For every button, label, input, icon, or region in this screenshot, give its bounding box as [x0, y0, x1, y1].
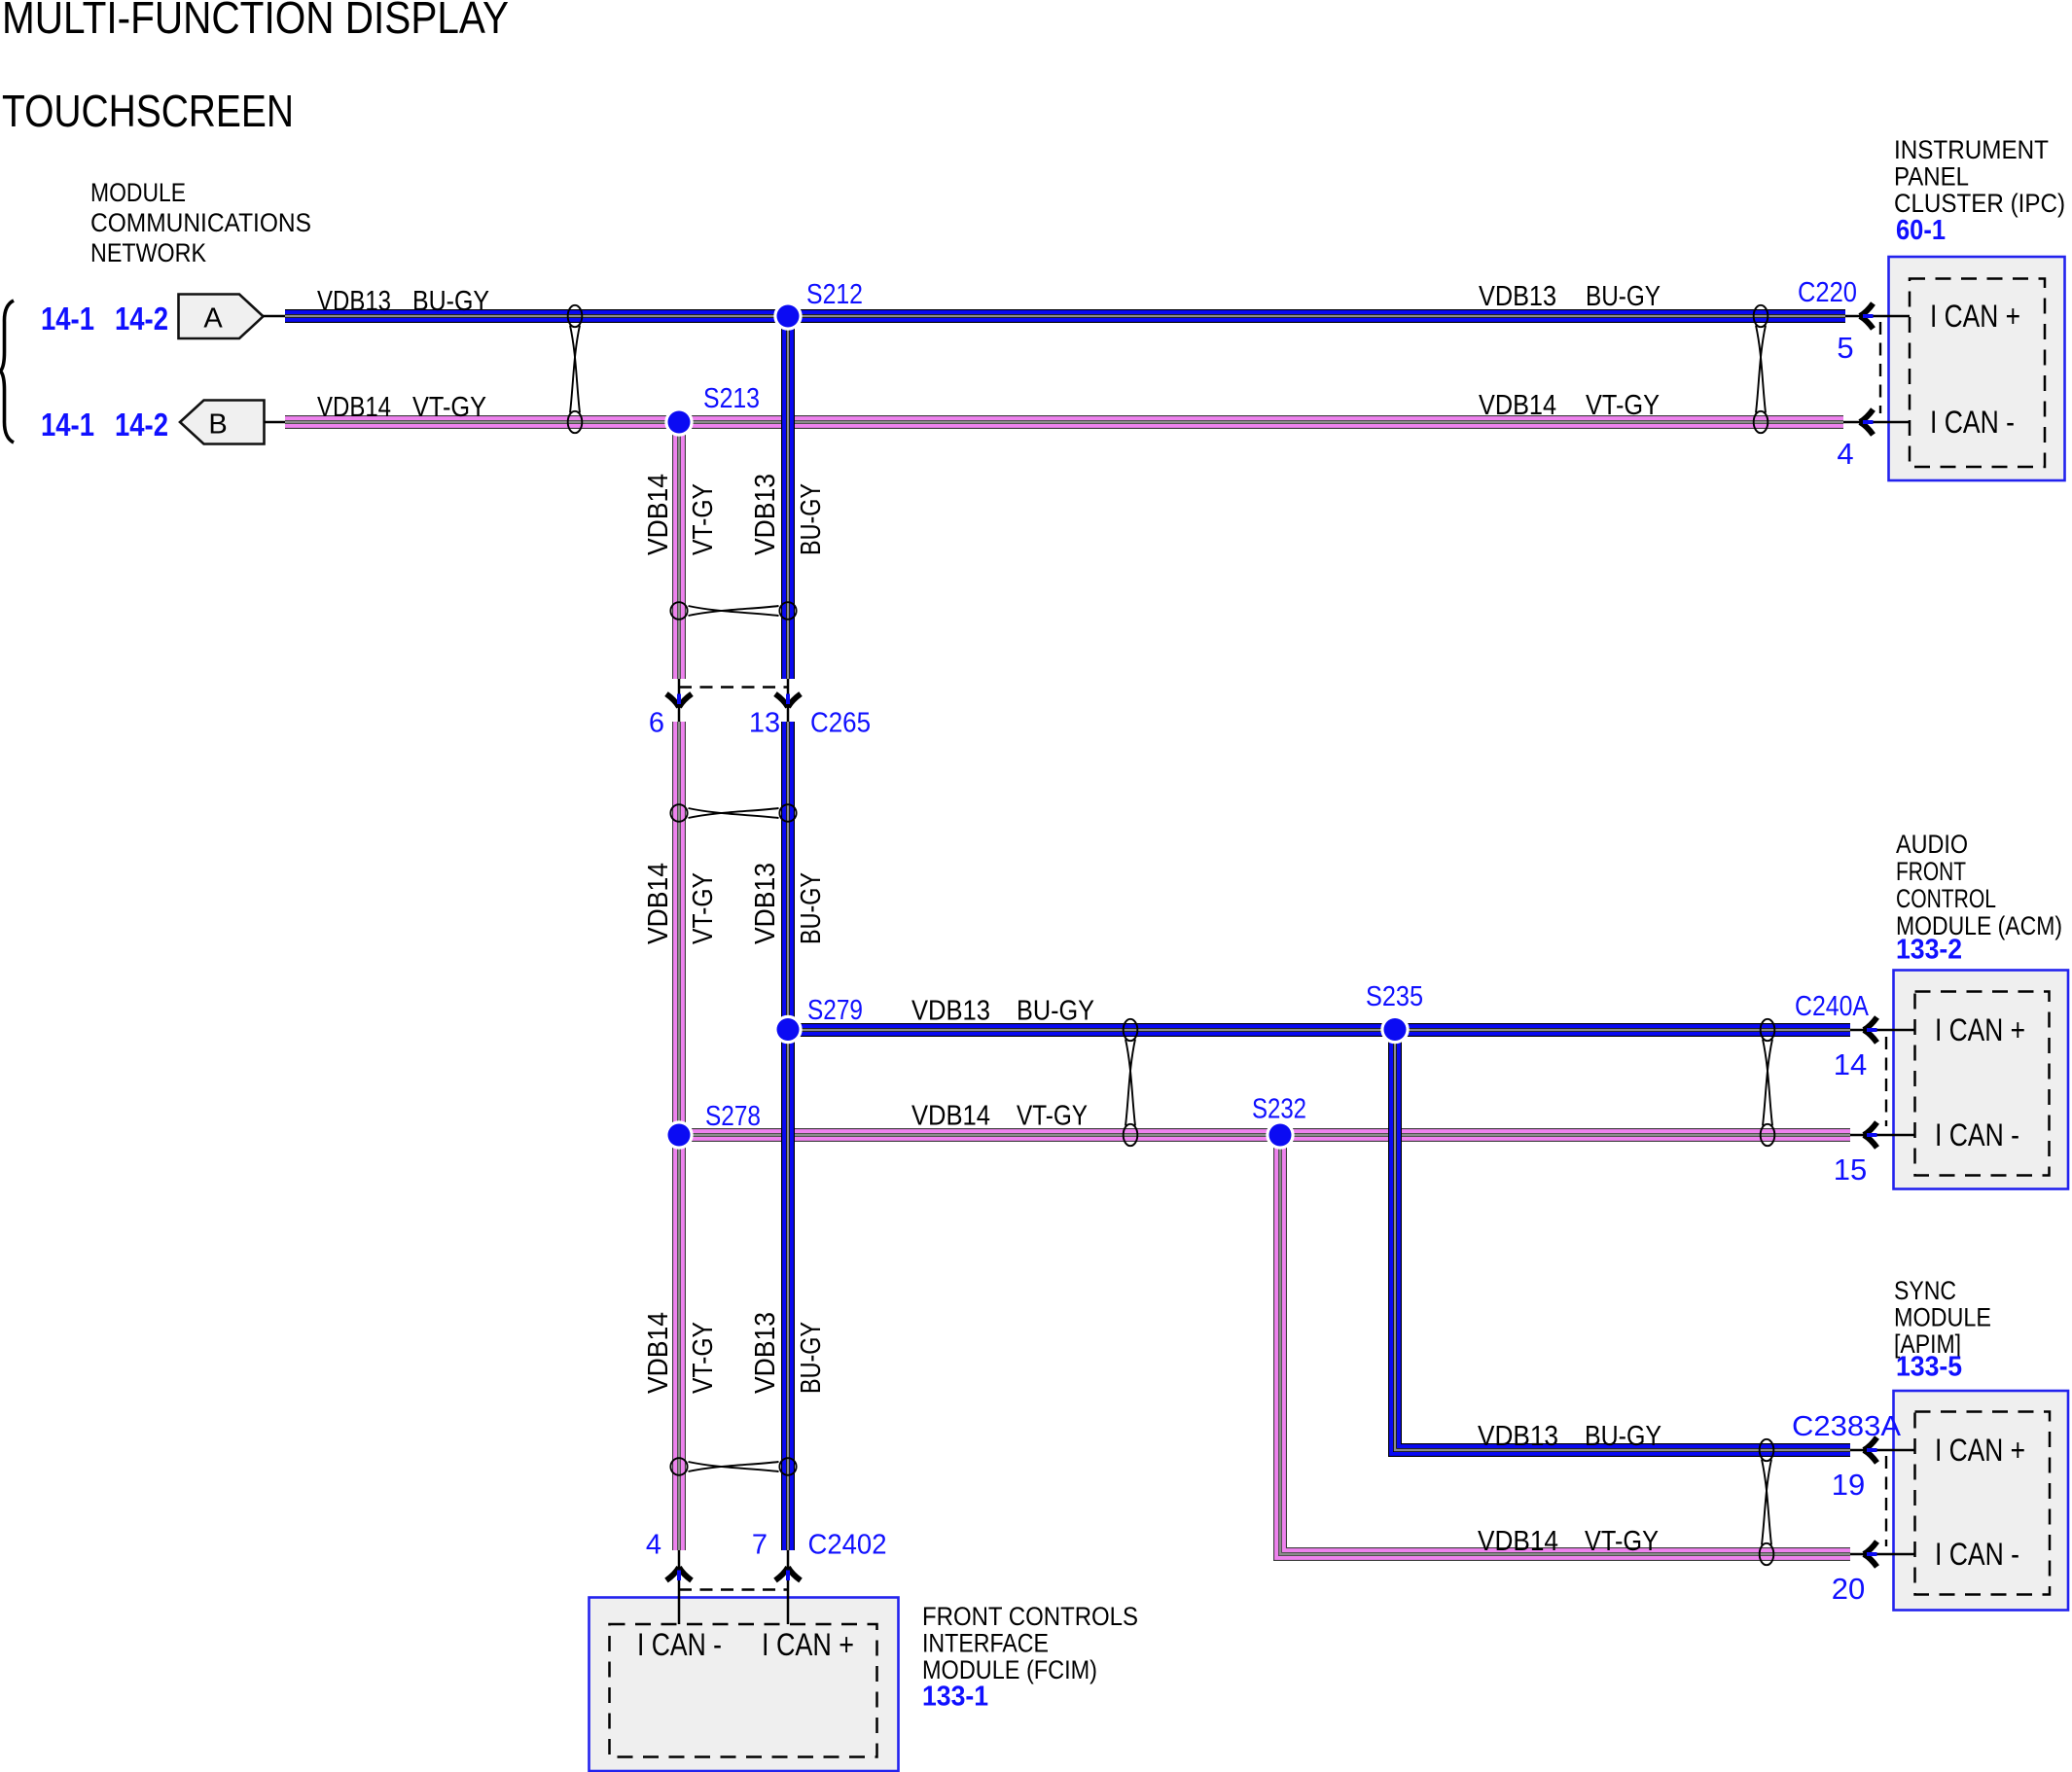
svg-text:VDB13: VDB13: [750, 474, 781, 555]
svg-text:S213: S213: [703, 383, 760, 414]
svg-text:19: 19: [1832, 1468, 1865, 1502]
svg-text:VDB14: VDB14: [1478, 1526, 1558, 1557]
connector tag B: [180, 401, 265, 444]
svg-text:VT-GY: VT-GY: [412, 392, 486, 423]
svg-text:C220: C220: [1798, 277, 1857, 308]
svg-text:VDB13: VDB13: [1478, 1421, 1558, 1452]
svg-text:S212: S212: [806, 279, 863, 310]
splice S279: [773, 1015, 802, 1044]
svg-text:CLUSTER (IPC): CLUSTER (IPC): [1894, 189, 2065, 218]
twisted pair symbol (APIM pair, at C2383A): [1760, 1439, 1774, 1565]
svg-text:S235: S235: [1366, 981, 1423, 1012]
svg-text:20: 20: [1832, 1572, 1865, 1606]
svg-text:BU-GY: BU-GY: [1586, 281, 1661, 312]
svg-text:VT-GY: VT-GY: [688, 872, 719, 944]
splice S278: [664, 1120, 693, 1149]
svg-text:MULTI-FUNCTION DISPLAY: MULTI-FUNCTION DISPLAY: [2, 0, 509, 43]
svg-text:13: 13: [749, 708, 780, 739]
svg-text:VT-GY: VT-GY: [1586, 390, 1660, 421]
FCIM pin 7 entry: [787, 1550, 790, 1624]
wire VDB14 VT-GY branch S232 to APIM pin 20: [1280, 1135, 1850, 1554]
svg-text:VDB14: VDB14: [643, 474, 674, 555]
splice S212: [773, 301, 802, 330]
wire VDB14 VT-GY to ACM pin 15: [679, 1128, 1850, 1142]
svg-text:15: 15: [1834, 1152, 1867, 1187]
svg-text:7: 7: [752, 1530, 768, 1561]
svg-text:FRONT: FRONT: [1896, 857, 1966, 886]
svg-text:MODULE (FCIM): MODULE (FCIM): [922, 1655, 1097, 1684]
svg-text:VDB14: VDB14: [1479, 390, 1556, 421]
twisted pair symbol (top pair, at C220): [1754, 305, 1768, 433]
module box FRONT CONTROLS INTERFACE MODULE (FCIM): [589, 1598, 899, 1772]
wire lead from A: [264, 315, 287, 318]
twisted pair symbol (vertical pair, above C265): [670, 602, 796, 620]
svg-text:I CAN +: I CAN +: [1930, 299, 2020, 334]
svg-text:14-1: 14-1: [41, 407, 94, 443]
svg-text:VDB14: VDB14: [911, 1101, 990, 1132]
svg-text:AUDIO: AUDIO: [1896, 830, 1968, 859]
svg-text:VT-GY: VT-GY: [1017, 1101, 1088, 1132]
svg-text:I CAN -: I CAN -: [1930, 405, 2015, 440]
svg-text:133-5: 133-5: [1896, 1352, 1962, 1383]
svg-text:VDB13: VDB13: [750, 1312, 781, 1394]
svg-text:FRONT CONTROLS: FRONT CONTROLS: [922, 1602, 1138, 1631]
svg-text:I CAN -: I CAN -: [1935, 1117, 2019, 1152]
APIM pin 20 entry: [1850, 1553, 1914, 1556]
module box SYNC MODULE [APIM]: [1894, 1391, 2069, 1611]
FCIM connector face dashed (C2402): [679, 1588, 789, 1590]
module box AUDIO FRONT CONTROL MODULE (ACM): [1894, 971, 2069, 1189]
svg-text:COMMUNICATIONS: COMMUNICATIONS: [90, 208, 311, 237]
IPC connector face dashed: [1879, 322, 1881, 413]
svg-text:BU-GY: BU-GY: [796, 483, 827, 555]
svg-text:4: 4: [1837, 437, 1853, 471]
svg-text:VDB13: VDB13: [317, 286, 391, 317]
splice S213: [664, 408, 693, 436]
svg-text:133-1: 133-1: [922, 1682, 988, 1713]
svg-text:I CAN -: I CAN -: [1935, 1537, 2019, 1572]
APIM connector face dashed: [1885, 1456, 1887, 1546]
arrow into C265 pin 13: [775, 694, 801, 708]
svg-text:S279: S279: [807, 995, 863, 1026]
svg-text:VT-GY: VT-GY: [688, 1322, 719, 1394]
svg-text:VDB14: VDB14: [317, 392, 391, 423]
APIM pin 19 entry: [1850, 1449, 1914, 1452]
twisted pair symbol (top pair, left): [568, 305, 583, 433]
wire VDB13 BU-GY branch S235 to APIM pin 19: [1395, 1030, 1850, 1450]
svg-text:S232: S232: [1252, 1094, 1306, 1125]
svg-text:BU-GY: BU-GY: [412, 286, 489, 317]
connector C265 crossing: [678, 679, 681, 722]
svg-text:14: 14: [1834, 1047, 1867, 1081]
svg-text:INSTRUMENT: INSTRUMENT: [1894, 135, 2049, 164]
svg-text:PANEL: PANEL: [1894, 162, 1969, 192]
arrow into C265 pin 6: [666, 694, 692, 708]
splice S232: [1266, 1120, 1294, 1149]
svg-text:VDB13: VDB13: [911, 996, 990, 1027]
IPC pin 4 entry: [1843, 421, 1910, 424]
wire VDB14 VT-GY top (B to C220 pin 4): [285, 415, 1843, 429]
svg-text:I CAN +: I CAN +: [1935, 1012, 2025, 1047]
twisted pair symbol (vertical pair, above C2402): [670, 1458, 796, 1475]
svg-text:14-2: 14-2: [115, 301, 168, 337]
svg-text:6: 6: [649, 708, 664, 739]
svg-text:4: 4: [646, 1530, 661, 1561]
svg-text:TOUCHSCREEN: TOUCHSCREEN: [2, 86, 294, 136]
ACM pin 14 entry: [1850, 1029, 1914, 1032]
svg-text:MODULE: MODULE: [1894, 1303, 1991, 1332]
svg-text:BU-GY: BU-GY: [796, 872, 827, 944]
connector tag A: [179, 295, 264, 339]
wire lead from B: [265, 421, 287, 424]
svg-text:C2402: C2402: [808, 1530, 887, 1561]
svg-text:SYNC: SYNC: [1894, 1276, 1956, 1305]
svg-text:14-2: 14-2: [115, 407, 168, 443]
svg-text:133-2: 133-2: [1896, 935, 1962, 966]
svg-text:BU-GY: BU-GY: [796, 1322, 827, 1394]
svg-text:5: 5: [1837, 331, 1853, 365]
svg-text:14-1: 14-1: [41, 301, 94, 337]
svg-text:60-1: 60-1: [1896, 215, 1946, 246]
brace (network bus group): [1, 301, 15, 443]
svg-text:VT-GY: VT-GY: [688, 483, 719, 555]
ACM pin 15 entry: [1850, 1134, 1914, 1137]
svg-text:VT-GY: VT-GY: [1585, 1526, 1659, 1557]
svg-text:NETWORK: NETWORK: [90, 238, 206, 267]
svg-text:A: A: [203, 303, 223, 335]
svg-text:B: B: [208, 408, 227, 440]
svg-text:CONTROL: CONTROL: [1896, 884, 1996, 913]
svg-text:VDB14: VDB14: [643, 863, 674, 944]
IPC pin 5 entry: [1845, 315, 1910, 318]
twisted pair symbol (ACM pair, at C240A): [1761, 1019, 1775, 1146]
wire VDB13 BU-GY vertical (S212 to FCIM pin 7): [781, 316, 795, 1550]
svg-text:VDB13: VDB13: [1479, 281, 1556, 312]
svg-text:I CAN -: I CAN -: [637, 1627, 722, 1662]
ACM connector face dashed: [1885, 1037, 1887, 1126]
svg-text:C265: C265: [810, 708, 871, 739]
twisted pair symbol (vertical pair, below C265): [670, 804, 796, 822]
wire VDB14 VT-GY vertical (S213 to FCIM pin 4): [672, 422, 686, 1550]
FCIM pin 4 entry: [678, 1550, 681, 1624]
svg-text:BU-GY: BU-GY: [1017, 996, 1094, 1027]
svg-text:VDB14: VDB14: [643, 1312, 674, 1394]
svg-text:MODULE: MODULE: [90, 178, 186, 207]
twisted pair symbol (ACM pair, middle): [1124, 1019, 1138, 1146]
module box INSTRUMENT PANEL CLUSTER (IPC): [1889, 257, 2065, 480]
svg-text:I CAN +: I CAN +: [762, 1627, 854, 1662]
svg-text:S278: S278: [705, 1101, 761, 1132]
svg-text:C240A: C240A: [1795, 991, 1870, 1022]
svg-text:VDB13: VDB13: [750, 863, 781, 944]
svg-text:C2383A: C2383A: [1792, 1411, 1902, 1442]
svg-text:I CAN +: I CAN +: [1935, 1433, 2025, 1468]
splice S235: [1380, 1015, 1409, 1044]
wire VDB13 BU-GY top (A to C220 pin 5): [285, 309, 1845, 323]
wire VDB13 BU-GY to ACM pin 14: [788, 1023, 1850, 1037]
svg-text:BU-GY: BU-GY: [1585, 1421, 1661, 1452]
svg-text:INTERFACE: INTERFACE: [922, 1629, 1049, 1658]
